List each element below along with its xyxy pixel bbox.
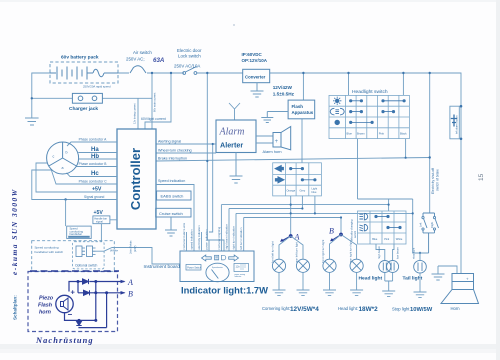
- svg-text:Signal ground: Signal ground: [84, 195, 105, 199]
- piezo horn circle: [56, 295, 73, 312]
- svg-text:Air switch: Air switch: [133, 50, 152, 55]
- svg-text:c: c: [53, 155, 55, 159]
- wire battery negative drops: [138, 73, 152, 129]
- ground head light: [382, 291, 395, 297]
- arrow to B: [121, 291, 126, 295]
- wire alerter to horn: [256, 136, 273, 143]
- svg-text:e-kuma SUN 3000W: e-kuma SUN 3000W: [10, 188, 19, 275]
- wire turn lamp splits A: [279, 236, 303, 259]
- icon headlight row2: [330, 108, 344, 115]
- node flash feed: [302, 72, 304, 74]
- node A: [289, 234, 293, 238]
- svg-text:+: +: [466, 277, 469, 282]
- wire main bus converter to right edge: [270, 73, 461, 274]
- headlight switch contacts row2: [350, 110, 395, 112]
- node tail junction: [419, 252, 421, 254]
- piezo dashed box top retrace: [30, 270, 119, 272]
- svg-text:Hb: Hb: [91, 154, 99, 160]
- piezo wires top: [69, 282, 125, 328]
- ground alerter: [230, 153, 243, 184]
- wire flash to turn switch table: [301, 119, 303, 163]
- wire air switch leads: [118, 72, 184, 74]
- svg-text:Nachrüstung: Nachrüstung: [35, 336, 94, 345]
- ground tail light: [414, 292, 427, 298]
- svg-text:right turn indication: right turn indication: [232, 225, 236, 249]
- svg-text:Phase conductor B: Phase conductor B: [79, 162, 108, 166]
- icon mini D: [222, 255, 226, 260]
- svg-text:Alerter: Alerter: [220, 141, 243, 150]
- svg-text:Phase conductor C: Phase conductor C: [79, 180, 108, 184]
- svg-text:Speed indication: Speed indication: [158, 179, 185, 183]
- ground flash: [261, 112, 288, 123]
- bifocality contacts row2: [387, 226, 401, 228]
- wire wheel-turn checking: [156, 152, 216, 154]
- dashed box speed handlebar with switch: [32, 241, 115, 272]
- svg-text:Converter: Converter: [245, 75, 266, 80]
- lamp head light pair: [379, 261, 399, 273]
- svg-text:Electric door: Electric door: [177, 48, 202, 53]
- svg-text:handlebar with switch: handlebar with switch: [35, 250, 64, 254]
- svg-text:Charger jack: Charger jack: [69, 106, 98, 112]
- svg-text:63A: 63A: [153, 57, 165, 64]
- svg-text:Head light: Head light: [359, 276, 383, 282]
- svg-text:Orange: Orange: [287, 189, 296, 193]
- svg-text:Phase conductor A: Phase conductor A: [79, 138, 107, 142]
- instrument board box: [180, 251, 254, 282]
- svg-text:Wheel-turn checking: Wheel-turn checking: [158, 148, 192, 152]
- icon arrow right outline: [229, 255, 239, 261]
- svg-text:rear left turn light: rear left turn light: [295, 242, 299, 263]
- ground battery: [25, 118, 39, 125]
- ground turn lamp 2: [297, 290, 310, 296]
- svg-text:250V AC;: 250V AC;: [126, 57, 145, 62]
- wire head lamp feeds: [376, 244, 394, 261]
- lamp rear left turn: [296, 259, 309, 272]
- wire brake switch feed: [429, 73, 431, 213]
- icon left arrow: [275, 166, 283, 172]
- svg-text:Brake interruption: Brake interruption: [158, 156, 187, 160]
- node signal ground junction: [64, 198, 66, 200]
- lamp front left turn: [272, 259, 285, 272]
- wire turn outputs: [221, 196, 412, 251]
- svg-text:60v main current: 60v main current: [153, 92, 157, 112]
- fuse F1: [93, 69, 118, 77]
- svg-text:bifocality-changing: bifocality-changing: [349, 219, 353, 241]
- air switch S1 symbol: [130, 66, 146, 73]
- svg-text:Speedometer: Speedometer: [212, 266, 223, 269]
- svg-text:left alarm button: left alarm button: [455, 115, 459, 134]
- svg-text:Flash: Flash: [38, 303, 53, 309]
- wire charger line: [32, 97, 152, 99]
- icon sun row1: [333, 97, 341, 105]
- wire handlebar signal to controller: [101, 220, 117, 242]
- node distribution dots: [290, 212, 292, 214]
- cruise switch box: [156, 208, 191, 217]
- converter U1 box: [243, 69, 270, 82]
- svg-text:Head light:: Head light:: [338, 306, 358, 311]
- svg-text:handlebar: handlebar: [70, 232, 83, 236]
- antenna alerter: [229, 103, 240, 120]
- svg-text:Blue: Blue: [347, 132, 353, 136]
- horn LS2: [441, 274, 479, 304]
- flash apparatus U2 box: [288, 100, 315, 119]
- wire handlebar drop: [65, 200, 67, 227]
- turn switch contacts row1: [290, 167, 304, 169]
- ground turn lamp 4: [350, 290, 363, 296]
- dashed box optional switch: [73, 242, 105, 269]
- scan artifact right edge: [496, 0, 500, 360]
- controller U4 box: [117, 129, 156, 229]
- turn switch contacts row2: [301, 179, 316, 181]
- svg-text:Controller: Controller: [128, 148, 143, 210]
- diode D2: [84, 290, 90, 295]
- piezo dashed box: [28, 272, 118, 332]
- wire y199 distribution: [358, 199, 429, 253]
- svg-text:left turn indication: left turn indication: [239, 227, 243, 249]
- svg-text:Brown: Brown: [357, 132, 365, 136]
- svg-text:Right: Right: [430, 222, 434, 228]
- svg-text:switch: switch: [353, 230, 357, 238]
- svg-text:Hc: Hc: [91, 171, 99, 177]
- svg-text:Schaltplan:: Schaltplan:: [13, 295, 18, 320]
- wire Hc: [67, 173, 118, 177]
- svg-text:Left: Left: [419, 222, 423, 227]
- svg-text:B: B: [128, 290, 133, 299]
- power switch mini box: [186, 265, 201, 271]
- display mini box: [234, 264, 249, 272]
- node alerter feed: [206, 72, 208, 74]
- svg-text:EABS switch: EABS switch: [161, 194, 184, 199]
- svg-text:1.5±0.5Hz: 1.5±0.5Hz: [273, 92, 295, 97]
- wire turn lamp splits B: [330, 235, 357, 260]
- svg-text:switch of brake: switch of brake: [436, 169, 440, 191]
- svg-text:Flash: Flash: [292, 104, 304, 109]
- svg-text:Piezo: Piezo: [39, 296, 54, 302]
- motor M1: [47, 142, 79, 174]
- svg-text:Lock switch: Lock switch: [178, 54, 201, 59]
- svg-text:Grey: Grey: [300, 189, 306, 193]
- alerter U3 box: [216, 120, 256, 153]
- svg-text:Headlight switch: Headlight switch: [352, 89, 388, 95]
- svg-text:15: 15: [478, 173, 485, 181]
- svg-text:Cruise switch: Cruise switch: [159, 211, 183, 216]
- turn switch table: [273, 163, 322, 196]
- connector optional 2: [87, 246, 96, 257]
- handlebar signal box: [93, 216, 110, 224]
- scan artifact top strip: [0, 0, 500, 2]
- svg-text:60v battery pack: 60v battery pack: [61, 55, 99, 61]
- node button bottom: [460, 138, 463, 141]
- svg-text:+5V: +5V: [92, 187, 102, 193]
- svg-text:Apparatus: Apparatus: [292, 110, 314, 115]
- wire Hb: [79, 158, 117, 160]
- wire white: [96, 248, 181, 265]
- battery B1 dashed box: [50, 62, 118, 83]
- svg-text:60V/light current: 60V/light current: [141, 117, 166, 121]
- svg-text:Ha: Ha: [91, 147, 99, 153]
- ground converter: [251, 83, 264, 97]
- svg-text:front right turn light: front right turn light: [321, 239, 325, 263]
- icon right arrow: [275, 177, 284, 183]
- gauge speedometer: [206, 263, 229, 282]
- arrow B: [332, 235, 342, 241]
- alarm horn LS1: [273, 127, 291, 150]
- headlight switch table: [329, 95, 409, 138]
- svg-text:indicator: indicator: [235, 275, 242, 278]
- arrow to A: [121, 280, 126, 284]
- svg-text:+: +: [71, 288, 76, 297]
- speed handlebar box: [67, 226, 92, 238]
- wire brake interruption: [156, 158, 430, 162]
- svg-text:blue: blue: [312, 190, 317, 194]
- lamp tail light: [414, 260, 427, 273]
- wire 60V light current branch: [145, 73, 171, 129]
- svg-text:White: White: [110, 249, 118, 253]
- ground turn lamp 1: [273, 290, 286, 296]
- svg-text:Alerting signal: Alerting signal: [158, 139, 181, 143]
- svg-text:Stop light: Stop light: [392, 306, 410, 311]
- svg-text:Power Switch: Power Switch: [187, 267, 202, 270]
- lamp rear right turn: [350, 259, 363, 272]
- wire lock switch to converter: [197, 72, 243, 74]
- svg-text:Blue: Blue: [372, 237, 378, 241]
- svg-text:Alarm: Alarm: [219, 127, 245, 138]
- arrow A: [282, 236, 291, 241]
- wire flash apparatus drop: [302, 73, 304, 100]
- svg-text:signal: signal: [96, 220, 103, 224]
- piezo junction dots: [94, 280, 97, 283]
- wire phase conductor B: [76, 166, 117, 168]
- svg-text:A: A: [127, 278, 133, 287]
- svg-text:power indication: power indication: [205, 229, 209, 250]
- wire instrument drop from alerting: [207, 144, 212, 240]
- svg-text:Optional switch: Optional switch: [75, 264, 98, 268]
- svg-text:high beam indication: high beam indication: [225, 223, 229, 249]
- wire instrument feeds: [187, 232, 210, 251]
- icon dot row3: [335, 120, 340, 125]
- icon high beam: [359, 213, 367, 220]
- brake switch S3: [422, 213, 439, 253]
- svg-text:high beam: high beam: [377, 245, 381, 259]
- svg-text:10W/5W: 10W/5W: [410, 307, 433, 313]
- piezo speaker glyph: [61, 298, 69, 310]
- wire tail stem top: [413, 253, 429, 260]
- icon arrow left outline: [202, 255, 212, 261]
- scan artifact bottom streak: [0, 344, 500, 349]
- wire phase conductor C: [51, 169, 117, 184]
- piezo wires bottom: [65, 293, 107, 328]
- svg-text:a: a: [62, 166, 64, 170]
- svg-text:rear right turn light: rear right turn light: [348, 240, 352, 263]
- button glyph: [451, 115, 457, 127]
- svg-text:stop light: stop light: [412, 248, 416, 259]
- diode D1: [83, 279, 89, 284]
- svg-text:12v: 12v: [236, 264, 241, 268]
- node headlight feeds: [347, 72, 349, 74]
- svg-text:Alarm horn: Alarm horn: [263, 149, 282, 154]
- svg-text:White: White: [396, 237, 403, 241]
- svg-text:Black: Black: [400, 132, 407, 136]
- lock switch S2: [183, 67, 197, 75]
- svg-text:Cornering light:: Cornering light:: [262, 306, 290, 311]
- wire signal ground: [32, 170, 117, 200]
- scan speck: [233, 24, 235, 26]
- wire headlight switch outputs: [358, 139, 406, 199]
- svg-text:+: +: [275, 139, 279, 145]
- headlight switch contacts row1: [350, 100, 406, 102]
- node button top: [460, 105, 463, 108]
- svg-text:250V AC/10A: 250V AC/10A: [174, 64, 200, 69]
- wire speed indication: [156, 185, 194, 252]
- wire battery left lead: [32, 73, 50, 118]
- svg-text:B: B: [329, 227, 334, 236]
- svg-text:Pink: Pink: [379, 132, 385, 136]
- ground turn lamp 3: [323, 290, 336, 296]
- svg-text:12v timing current: 12v timing current: [133, 103, 137, 124]
- wire alerter feed vertical: [207, 73, 224, 251]
- node crossing dots: [212, 143, 214, 145]
- svg-text:Instrument board: Instrument board: [144, 264, 181, 270]
- ground horn: [432, 266, 458, 280]
- node charger right: [151, 72, 153, 74]
- icon low beam: [359, 224, 367, 231]
- lamp front right turn: [323, 259, 336, 272]
- wire lamp ground stems: [279, 272, 420, 292]
- EABS switch box: [157, 191, 191, 200]
- svg-text:Horn: Horn: [451, 306, 461, 311]
- battery cells: [50, 67, 93, 80]
- svg-text:speed indication: speed indication: [190, 229, 194, 250]
- icon mini square: [215, 255, 219, 260]
- wire headlight switch feeds: [349, 73, 404, 95]
- wire +5V motor: [36, 163, 117, 192]
- svg-text:18W*2: 18W*2: [359, 306, 379, 313]
- diode D3: [76, 321, 81, 326]
- svg-text:+5V: +5V: [94, 210, 104, 216]
- svg-text:Speed conducting: Speed conducting: [35, 246, 59, 250]
- svg-text:12V/5W*4: 12V/5W*4: [290, 306, 319, 313]
- left alarm button SW: [450, 106, 459, 139]
- svg-text:OP:12V/10A: OP:12V/10A: [242, 58, 268, 63]
- svg-text:instrument alarm wire: instrument alarm wire: [182, 222, 186, 249]
- svg-text:electricity indication: electricity indication: [197, 225, 201, 250]
- svg-text:Pink: Pink: [384, 237, 390, 241]
- headlight switch contacts row3: [350, 121, 374, 123]
- svg-text:Indicator light:1.7W: Indicator light:1.7W: [181, 285, 268, 296]
- node B: [339, 233, 343, 237]
- svg-text:Joint Relais: Joint Relais: [129, 240, 133, 254]
- wire alerting signal: [156, 143, 216, 145]
- ground cruise: [165, 217, 177, 236]
- node lock feed: [170, 72, 172, 74]
- bifocality switch table: [358, 211, 407, 244]
- svg-text:low beam: low beam: [396, 246, 400, 259]
- wire Ha: [78, 152, 117, 154]
- svg-text:250V/20A rapid speed: 250V/20A rapid speed: [83, 85, 111, 89]
- svg-text:12V/42W: 12V/42W: [273, 85, 293, 90]
- bifocality contacts row1: [375, 215, 389, 217]
- svg-text:(24V): (24V): [133, 246, 137, 252]
- svg-text:−: −: [68, 310, 73, 319]
- svg-text:Electricity shut-off: Electricity shut-off: [431, 168, 435, 194]
- wire phase conductor A: [67, 142, 117, 146]
- svg-text:instrument lighting: instrument lighting: [217, 226, 221, 249]
- svg-text:front left turn light: front left turn light: [271, 241, 275, 263]
- connector optional 1: [76, 246, 85, 257]
- svg-text:b: b: [66, 151, 68, 155]
- svg-text:IP:60VDC: IP:60VDC: [242, 52, 263, 57]
- node battery junction: [31, 97, 33, 99]
- charger jack J1: [72, 93, 102, 103]
- svg-text:horn: horn: [39, 310, 52, 316]
